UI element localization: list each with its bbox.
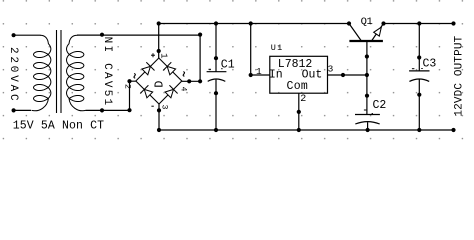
- capacitor C3: [409, 71, 429, 82]
- node top rail at bridge: [157, 21, 161, 25]
- node bottom rail at C2: [366, 128, 370, 132]
- bridge rectifier D diamond: [136, 58, 182, 104]
- svg-text:1: 1: [256, 66, 262, 77]
- node U1 pin3 end: [341, 73, 345, 77]
- wire top rail left: [159, 23, 349, 25]
- node C1 bottom pin: [214, 91, 218, 95]
- wire C1 bottom: [215, 80, 217, 130]
- wire U1 pin2 to bottom rail: [298, 93, 300, 130]
- wire top rail right: [384, 23, 454, 25]
- node U1 out at Q1 base line: [365, 73, 369, 77]
- Q1 emitter arrow: [374, 27, 382, 36]
- diode D (bottom-right): [164, 85, 178, 99]
- node top rail at Q1 collector: [347, 21, 351, 25]
- svg-text:NI CAV51: NI CAV51: [101, 37, 113, 108]
- svg-text:3: 3: [159, 105, 168, 110]
- node C2 top pin: [365, 94, 369, 98]
- node top rail at C3: [417, 21, 421, 25]
- svg-text:Com: Com: [287, 80, 309, 93]
- capacitor C2: [355, 115, 380, 125]
- wire bridge plus to top rail: [158, 24, 160, 59]
- transformer core: [57, 30, 62, 113]
- bridge AC tilde right: [183, 72, 184, 77]
- wire C1 top: [215, 24, 217, 72]
- node top rail at Q1 emitter: [381, 21, 385, 25]
- diode D (bottom-left): [140, 85, 154, 99]
- C1 plus mark: [209, 68, 223, 71]
- wire primary bottom lead: [14, 109, 31, 111]
- node bridge pin2 end: [127, 79, 131, 83]
- node bridge pin1 end: [157, 49, 161, 53]
- svg-text:3: 3: [328, 64, 334, 75]
- node bottom rail at C3: [417, 128, 421, 132]
- wire U1 pin1 from top rail: [251, 24, 270, 76]
- wire bridge minus to bottom rail: [158, 104, 160, 130]
- svg-text:2: 2: [123, 84, 133, 89]
- wire primary top lead: [14, 34, 41, 36]
- node secondary top corner: [198, 33, 202, 37]
- capacitor C1: [207, 72, 227, 82]
- bridge minus mark: [151, 105, 153, 107]
- node bottom rail at bridge: [157, 128, 161, 132]
- node 15VAC net top junction: [100, 33, 104, 37]
- wire secondary top to bridge AC right: [77, 35, 200, 81]
- node top rail at U1 drop: [249, 21, 253, 25]
- svg-text:C3: C3: [423, 57, 437, 70]
- C2 plus mark: [364, 110, 373, 114]
- node bottom rail at C1: [214, 128, 218, 132]
- svg-text:In: In: [269, 69, 283, 82]
- transistor Q1: [349, 24, 384, 42]
- C3 plus mark: [412, 68, 423, 70]
- node C3 bottom pin: [417, 93, 421, 97]
- svg-text:1: 1: [159, 53, 169, 58]
- node primary top terminal: [12, 33, 16, 37]
- diode D (left-top): [141, 62, 155, 76]
- svg-text:U1: U1: [271, 43, 284, 53]
- node top rail output end: [451, 21, 455, 25]
- node Q1 base pin end: [365, 54, 369, 58]
- node C1 top pin: [214, 56, 218, 60]
- wire secondary bottom to bridge AC left: [86, 81, 136, 110]
- wire bottom rail: [159, 129, 454, 131]
- transformer T primary winding: [32, 35, 51, 111]
- bridge AC tilde left: [134, 74, 135, 79]
- node bridge pin4 wire corner: [198, 79, 202, 83]
- regulator U1 box: [270, 56, 328, 93]
- transformer T secondary winding: [67, 35, 86, 111]
- node bottom rail at U1 pin2: [297, 128, 301, 132]
- svg-text:15V 5A Non CT: 15V 5A Non CT: [13, 119, 105, 132]
- svg-text:C2: C2: [373, 99, 387, 112]
- node C3 top pin: [417, 55, 421, 59]
- wire Q1 base down through C2 node: [366, 41, 368, 115]
- node U1 pin2 end: [297, 110, 301, 114]
- wire U1 pin3 to Q1 base node: [328, 74, 367, 76]
- wire C3 top: [418, 24, 420, 71]
- node top rail at C1: [214, 21, 218, 25]
- node U1 pin1 corner: [249, 73, 253, 77]
- node 15VAC net bottom junction: [100, 108, 104, 112]
- svg-text:C1: C1: [221, 58, 235, 71]
- wire C3 bottom: [418, 79, 420, 130]
- node primary bottom terminal: [12, 108, 16, 112]
- svg-text:12VDC OUTPUT: 12VDC OUTPUT: [454, 35, 466, 116]
- diode D (right-top): [163, 62, 177, 76]
- node bridge pin2 wire corner: [127, 108, 131, 112]
- node bridge pin3 end: [157, 108, 161, 112]
- node bridge pin4 end: [187, 79, 191, 83]
- svg-text:4: 4: [179, 87, 188, 92]
- svg-text:220VAC: 220VAC: [7, 47, 19, 103]
- bridge plus mark: [151, 53, 155, 57]
- svg-text:2: 2: [300, 94, 306, 105]
- svg-text:Q1: Q1: [361, 16, 373, 28]
- svg-text:D: D: [153, 81, 166, 88]
- wire C2 bottom: [367, 122, 369, 130]
- node bottom rail output end: [451, 128, 455, 132]
